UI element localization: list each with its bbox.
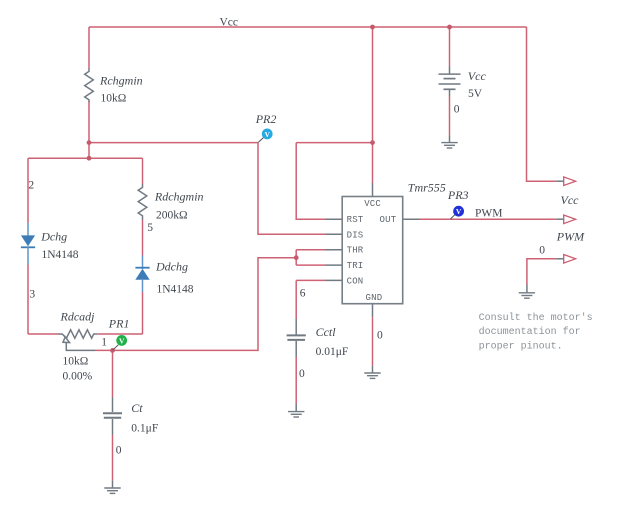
svg-text:Ddchg: Ddchg [155,259,188,273]
svg-text:PWM: PWM [475,207,502,219]
svg-text:0.01μF: 0.01μF [316,346,349,358]
svg-text:V: V [456,207,462,216]
svg-text:6: 6 [300,288,306,300]
svg-text:RST: RST [347,215,364,225]
svg-text:proper pinout.: proper pinout. [479,340,563,352]
svg-text:PR2: PR2 [255,112,277,126]
svg-text:200kΩ: 200kΩ [156,209,188,221]
svg-text:DIS: DIS [347,230,364,240]
svg-text:CON: CON [347,276,364,286]
svg-text:Tmr555: Tmr555 [408,180,446,194]
svg-text:PWM: PWM [556,230,585,244]
svg-text:0: 0 [539,244,545,256]
svg-text:PR3: PR3 [447,188,469,202]
svg-text:0: 0 [299,368,305,380]
svg-text:V: V [264,130,270,139]
svg-text:2: 2 [28,180,34,192]
svg-text:PR1: PR1 [108,316,130,330]
svg-text:3: 3 [29,288,35,300]
svg-text:0: 0 [454,103,460,115]
svg-text:10kΩ: 10kΩ [101,93,127,105]
svg-text:0: 0 [377,330,383,342]
svg-text:THR: THR [347,246,364,256]
svg-text:V: V [119,336,125,345]
svg-text:0.00%: 0.00% [63,370,93,382]
svg-text:GND: GND [366,293,383,303]
svg-text:10kΩ: 10kΩ [63,355,89,367]
svg-text:1N4148: 1N4148 [157,283,194,295]
svg-text:5: 5 [147,222,153,234]
svg-text:Rdcadj: Rdcadj [60,309,96,323]
svg-text:1N4148: 1N4148 [42,249,79,261]
svg-text:Vcc: Vcc [468,69,487,83]
svg-text:Rchgmin: Rchgmin [99,73,143,87]
svg-text:0: 0 [116,445,122,457]
svg-text:1: 1 [101,337,107,349]
svg-text:TRI: TRI [347,261,364,271]
svg-text:Vcc: Vcc [561,193,580,207]
svg-text:OUT: OUT [380,215,397,225]
svg-text:documentation for: documentation for [479,326,581,338]
svg-text:5V: 5V [468,88,483,100]
svg-text:Ct: Ct [131,401,143,415]
svg-text:Consult the motor's: Consult the motor's [479,312,593,324]
svg-text:Rdchgmin: Rdchgmin [154,189,204,203]
svg-text:Dchg: Dchg [40,230,67,244]
svg-text:Cctl: Cctl [316,325,337,339]
svg-text:0.1μF: 0.1μF [131,422,158,434]
svg-text:VCC: VCC [364,199,381,209]
svg-text:Vcc: Vcc [220,16,239,28]
